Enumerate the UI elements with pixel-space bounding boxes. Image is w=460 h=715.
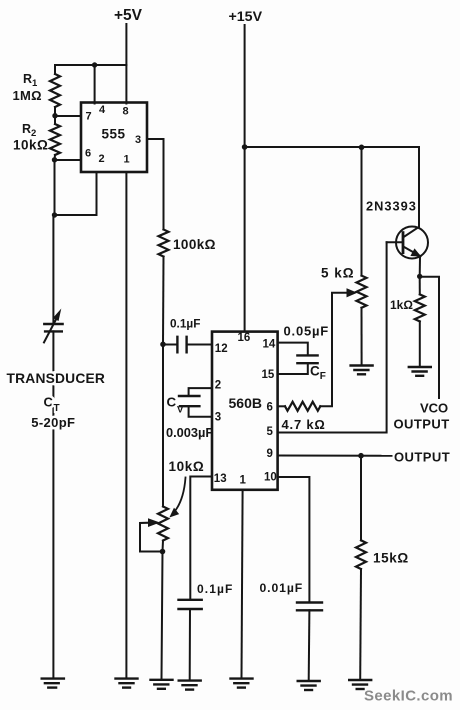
label 0.003uF — [166, 425, 213, 440]
pin 12 — [215, 343, 228, 355]
svg-text:0.1µF: 0.1µF — [197, 582, 233, 596]
svg-text:R: R — [23, 72, 32, 86]
svg-text:2: 2 — [215, 380, 221, 392]
pin 3 — [215, 412, 221, 424]
wire pot wiper arrow lead — [140, 523, 163, 552]
wire variable-cap arrowhead — [54, 310, 61, 320]
capacitor 0.1uF pin 13 — [179, 600, 202, 609]
capacitor 0.01uF — [297, 603, 322, 611]
label R1 — [23, 72, 38, 89]
svg-text:F: F — [320, 371, 326, 382]
svg-text:16: 16 — [238, 332, 251, 344]
svg-text:9: 9 — [267, 448, 273, 460]
wire top-left horizontal from R1 top to +5V rail — [55, 64, 126, 66]
wire CF bottom to pin 15 — [278, 363, 308, 374]
svg-text:0.01µF: 0.01µF — [260, 581, 304, 595]
wire 560B pin 2 to CV top — [189, 388, 212, 395]
svg-text:1: 1 — [240, 475, 247, 487]
label R2 — [22, 122, 36, 139]
label 10k ohm — [13, 138, 48, 153]
pin 5 — [267, 426, 274, 438]
wire emitter to VCO output — [420, 277, 439, 398]
resistor 5k — [357, 276, 367, 308]
svg-text:3: 3 — [135, 134, 141, 146]
wire CV bottom to pin 3 — [189, 406, 212, 417]
resistor 15k — [356, 540, 366, 569]
label 0.1uF (pin 12 coupling cap) — [170, 317, 200, 331]
pin 16 — [238, 332, 251, 344]
transistor collector diagonal — [404, 227, 419, 237]
wire 555 pin 2 L-route — [55, 173, 97, 216]
pin 2 — [215, 380, 221, 392]
node junction dot 5k branch — [359, 145, 365, 151]
wire emitter down — [419, 258, 421, 277]
node +15V label — [229, 9, 263, 25]
svg-text:4.7 kΩ: 4.7 kΩ — [282, 417, 326, 432]
ground pin13 cap — [179, 681, 201, 690]
svg-text:14: 14 — [263, 339, 276, 351]
label 100k ohm — [173, 237, 216, 252]
pin 15 — [262, 369, 275, 381]
wire curved arrowhead — [170, 509, 178, 517]
svg-text:15kΩ: 15kΩ — [373, 551, 409, 566]
svg-text:6: 6 — [85, 148, 91, 160]
capacitor CF 0.05uF plates — [297, 355, 317, 363]
svg-text:OUTPUT: OUTPUT — [394, 450, 450, 465]
svg-text:4: 4 — [99, 104, 106, 116]
node junction dot pot bottom — [160, 549, 166, 555]
wire 560B pin 1 to ground — [242, 490, 243, 678]
label CF — [310, 363, 326, 382]
pin 2 — [99, 153, 105, 165]
label 1M ohm — [13, 88, 42, 103]
node junction dot pin2 tie — [52, 212, 57, 217]
wire base lead — [387, 241, 402, 243]
svg-text:555: 555 — [102, 127, 126, 142]
svg-text:SeekIC.com: SeekIC.com — [364, 688, 453, 705]
label CV — [167, 394, 185, 415]
wire to 555 pin 7 — [55, 115, 81, 117]
svg-text:6: 6 — [267, 402, 273, 414]
svg-text:1MΩ: 1MΩ — [13, 88, 42, 103]
ground 1k — [409, 367, 431, 376]
wire R2 bottom lead — [54, 155, 57, 160]
wire variable-cap arrow diagonal — [44, 318, 57, 343]
svg-text:VCO: VCO — [420, 401, 448, 416]
ground transducer — [42, 679, 64, 688]
label 0.05uF — [284, 324, 330, 339]
wire R1 top lead — [54, 65, 56, 74]
wire pot wiper arrowhead — [149, 519, 159, 526]
label 560B — [229, 395, 262, 411]
svg-text:12: 12 — [215, 343, 228, 355]
wire +5V vertical rail down to 555 pin 8 — [125, 24, 127, 104]
label 5-20pF — [31, 415, 75, 430]
node OUTPUT label — [394, 450, 450, 465]
svg-text:7: 7 — [86, 111, 92, 123]
pin 13 — [214, 473, 227, 485]
resistor R2 — [50, 124, 60, 155]
wire 555 pin 4 vertical — [94, 65, 96, 104]
pin 8 — [123, 106, 129, 118]
transistor Q1 2N3393 circle — [396, 227, 428, 259]
wire top rail to transistor collector — [245, 147, 419, 227]
wire base down and left to 560B pin 5 — [278, 242, 387, 432]
op-amp U2 560B PLL box — [212, 332, 278, 490]
resistor 10k potentiometer body — [158, 507, 168, 541]
wire 5k top lead from rail — [361, 147, 363, 275]
label 0.1uF (pin 13 bypass) — [197, 582, 233, 596]
capacitor 0.1uF to pin 12 — [163, 344, 212, 346]
svg-text:3: 3 — [215, 412, 221, 424]
pin 1 — [124, 154, 130, 166]
capacitor CV plates — [179, 396, 199, 406]
wire cap to ground — [189, 609, 191, 680]
wire 100k bottom to cap junction — [162, 257, 165, 345]
svg-text:0.1µF: 0.1µF — [170, 317, 200, 331]
wire R2 top lead — [54, 116, 56, 124]
wire 560B pin 9 to output — [278, 455, 392, 457]
svg-text:TRANSDUCER: TRANSDUCER — [7, 371, 106, 386]
node junction dot 0.1uF tap — [160, 342, 166, 348]
wire transducer net vertical upper — [52, 215, 54, 323]
svg-text:0.05µF: 0.05µF — [284, 324, 330, 339]
pin 4 — [99, 104, 106, 116]
label 4.7 k ohm — [282, 417, 326, 432]
node junction dot +15V branch — [242, 144, 248, 150]
svg-text:13: 13 — [214, 473, 227, 485]
wire transducer net vertical lower — [52, 331, 54, 677]
wire to 555 pin 6 — [55, 159, 82, 161]
svg-text:+15V: +15V — [229, 9, 263, 25]
wire 15k bottom to ground — [359, 569, 362, 679]
ground 560B pin 1 — [231, 679, 253, 688]
svg-text:R: R — [22, 122, 31, 136]
wire curved arrow from pin 13 to pot — [173, 478, 186, 515]
pin 14 — [263, 339, 276, 351]
wire +15V rail down to 560B pin 16 — [244, 25, 246, 331]
pin 6 — [267, 402, 273, 414]
label 10k ohm — [169, 459, 205, 474]
svg-text:5: 5 — [267, 426, 274, 438]
pin 9 — [267, 448, 273, 460]
svg-text:10kΩ: 10kΩ — [169, 459, 205, 474]
pin 1 — [240, 475, 247, 487]
svg-text:1kΩ: 1kΩ — [390, 298, 413, 312]
node junction dot R2 bottom — [52, 157, 57, 162]
node junction dot R1-R2 — [52, 113, 57, 118]
wire pot bottom to ground — [162, 541, 164, 680]
node junction dot at pin4 branch — [92, 62, 97, 67]
wire 560B pin 10 L-route down — [278, 477, 310, 601]
label 555 — [102, 127, 126, 142]
resistor R1 — [50, 74, 60, 107]
transistor emitter arrowhead — [411, 249, 420, 256]
label CT — [44, 395, 60, 415]
svg-text:C: C — [44, 395, 54, 410]
pin 6 — [85, 148, 91, 160]
wire emitter to 1k — [419, 276, 421, 294]
svg-text:15: 15 — [262, 369, 275, 381]
wire 560B pin 6 lead — [278, 405, 285, 407]
label 1k ohm — [390, 298, 413, 312]
svg-text:OUTPUT: OUTPUT — [394, 417, 450, 432]
node +5V label — [114, 7, 143, 24]
ground 0.01uF — [298, 681, 320, 690]
resistor 1k — [415, 294, 425, 321]
label 5 k ohm — [321, 266, 355, 281]
ground 5k — [351, 366, 373, 375]
wire down-left vertical to pin2 tie — [54, 160, 56, 215]
svg-text:10kΩ: 10kΩ — [13, 138, 48, 153]
wire 4.7k up to 5k wiper arrow — [320, 293, 348, 407]
svg-text:C: C — [310, 363, 320, 378]
svg-text:V: V — [177, 404, 184, 415]
pin 7 — [86, 111, 92, 123]
wire 5k wiper arrowhead — [347, 289, 356, 297]
ground pot — [151, 680, 173, 689]
resistor 100k — [159, 230, 169, 257]
pin 10 — [264, 472, 277, 484]
wire cap to ground — [308, 610, 311, 680]
watermark SeekIC.com — [364, 688, 453, 705]
svg-text:5-20pF: 5-20pF — [31, 415, 75, 430]
svg-text:8: 8 — [123, 106, 129, 118]
label 0.01uF — [260, 581, 304, 595]
svg-text:0.003µF: 0.003µF — [166, 425, 213, 440]
svg-text:1: 1 — [124, 154, 130, 166]
svg-text:C: C — [167, 394, 177, 409]
wire 5k bottom to ground — [361, 308, 363, 365]
wire R1 bottom lead — [54, 107, 56, 116]
node junction dot output — [358, 453, 364, 459]
ground below 555 pin 1 — [116, 679, 138, 688]
transistor base bar — [402, 233, 405, 253]
label TRANSDUCER — [7, 371, 106, 386]
wire 560B pin 13 L-route — [190, 477, 212, 599]
wire 1k bottom to ground — [419, 321, 421, 366]
ground 15k — [349, 680, 371, 689]
svg-text:2N3393: 2N3393 — [366, 199, 417, 214]
svg-text:2: 2 — [99, 153, 105, 165]
pin 3 — [135, 134, 141, 146]
wire 560B pin 14 to CF top — [278, 343, 308, 355]
svg-text:100kΩ: 100kΩ — [173, 237, 216, 252]
node VCO OUTPUT label — [394, 401, 450, 432]
svg-text:T: T — [54, 403, 60, 414]
resistor 4.7k — [285, 402, 320, 411]
wire 555 pin 3 L-route right and down — [147, 139, 164, 230]
op-amp U1 555 timer box — [81, 103, 147, 173]
svg-text:10: 10 — [264, 472, 277, 484]
wire 555 pin 1 to ground — [125, 173, 127, 678]
svg-text:5 kΩ: 5 kΩ — [321, 266, 355, 281]
svg-text:560B: 560B — [229, 395, 262, 411]
svg-text:+5V: +5V — [114, 7, 143, 24]
label 15k ohm — [373, 551, 409, 566]
node junction dot emitter — [417, 274, 422, 279]
wire pin3 net down to pot — [162, 344, 164, 507]
wire output down through 15k — [360, 456, 362, 541]
label 2N3393 — [366, 199, 417, 214]
capacitor CT transducer variable plates — [44, 324, 62, 331]
transistor emitter diagonal — [404, 247, 421, 256]
